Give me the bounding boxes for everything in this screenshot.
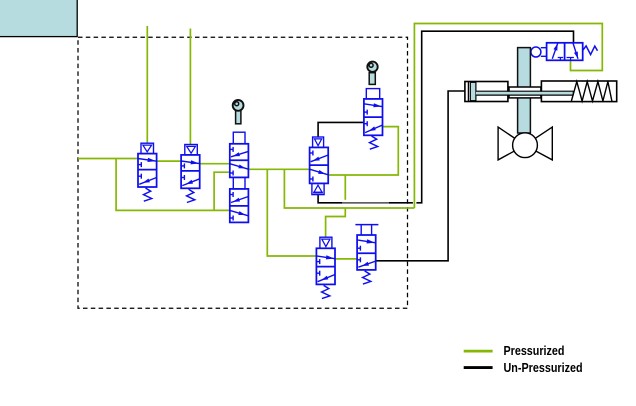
cylinder left barrel — [465, 82, 508, 102]
valve V7 (3/2 plunger-operated, spring return) — [355, 225, 378, 285]
piston — [470, 82, 476, 100]
ball valve — [498, 127, 552, 160]
valve V1 (3/2 pilot-operated, spring return) — [138, 143, 157, 201]
wire: branch to V3 lower body — [115, 209, 230, 211]
legend pressurized sample line — [464, 350, 493, 353]
wire: V4 out to V5 out-elbow — [328, 127, 398, 175]
legend un-pressurized sample line — [464, 366, 493, 369]
piston rod — [476, 91, 573, 95]
legend label Un-Pressurized — [504, 361, 583, 375]
wire: grey overlap segment — [342, 202, 389, 204]
wire: branch down from supply — [115, 158, 117, 210]
valve V8 (3/2 roller-operated, spring return) — [531, 43, 598, 61]
dashed enclosure border — [78, 37, 408, 308]
rod crossing block — [509, 87, 541, 98]
actuator stem (vertical) — [518, 48, 531, 133]
legend label Pressurized — [504, 344, 565, 358]
wire: supply stub to V2 pilot — [189, 29, 191, 145]
valve V3 (4/2 lever-operated tandem) — [230, 100, 249, 222]
wire: branch to V6 pilot — [326, 208, 346, 237]
wire: supply stub to V1 pilot — [146, 26, 148, 143]
wire: V1 out to V2 in — [157, 160, 182, 162]
wire: supply in to V1 left port — [78, 158, 138, 160]
wire: V5 left port to V4 top pilot — [318, 122, 364, 137]
cylinder left cap line — [467, 82, 469, 102]
cylinder right barrel — [541, 81, 616, 102]
wire: branch down to V6 left port — [267, 169, 316, 256]
return spring (in right barrel) — [571, 82, 612, 102]
wire: V4 bottom pilot to V8 top port — [318, 31, 573, 203]
wire: main supply loop to V8 bottom port — [284, 24, 602, 209]
valve V5 (3/2 lever-operated, spring return) — [364, 62, 383, 150]
valve V2 (3/2 pilot-operated, spring return) — [181, 145, 200, 203]
wire: V2 out to V3 upper in — [200, 163, 230, 165]
valve V4 (3/2 double pilot) — [310, 137, 329, 195]
top-left teal panel — [0, 0, 77, 37]
wire: sub-branch up to V3 upper T port — [214, 172, 230, 210]
svg-text:Un-Pressurized: Un-Pressurized — [504, 361, 583, 375]
svg-text:Pressurized: Pressurized — [504, 344, 565, 358]
valve V6 (3/2 pilot-operated, spring return) — [316, 237, 335, 298]
wire: V6 out to V7 in — [335, 258, 357, 260]
wire: branch V4 out down-crossing (upper segment) — [344, 175, 346, 200]
wire: V7 out to cylinder left port — [376, 91, 465, 261]
wire: V3 upper out to V4 in — [248, 168, 309, 170]
